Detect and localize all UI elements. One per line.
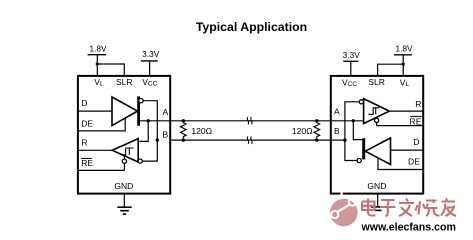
svg-text:B: B [163, 130, 169, 140]
svg-text:R: R [415, 99, 421, 109]
svg-text:RE: RE [81, 158, 93, 168]
svg-text:D: D [413, 137, 419, 147]
svg-text:R: R [81, 138, 87, 148]
svg-text:3.3V: 3.3V [142, 49, 160, 59]
svg-text:A: A [334, 107, 340, 117]
svg-text:B: B [334, 126, 340, 136]
svg-text:Typical Application: Typical Application [196, 20, 307, 34]
svg-text:120Ω: 120Ω [191, 126, 212, 136]
svg-text:DE: DE [408, 157, 420, 167]
svg-text:GND: GND [114, 181, 133, 191]
svg-text:GND: GND [367, 181, 386, 191]
svg-text:120Ω: 120Ω [292, 126, 313, 136]
svg-text:1.8V: 1.8V [89, 43, 107, 53]
svg-text:1.8V: 1.8V [395, 43, 413, 53]
svg-text:D: D [81, 98, 87, 108]
svg-text:3.3V: 3.3V [343, 50, 361, 60]
svg-text:SLR: SLR [116, 77, 133, 87]
svg-text:SLR: SLR [368, 77, 385, 87]
svg-text:A: A [163, 107, 169, 117]
svg-text:www.elecfans.com: www.elecfans.com [361, 221, 456, 233]
svg-text:RE: RE [410, 117, 422, 127]
svg-text:DE: DE [81, 119, 93, 129]
